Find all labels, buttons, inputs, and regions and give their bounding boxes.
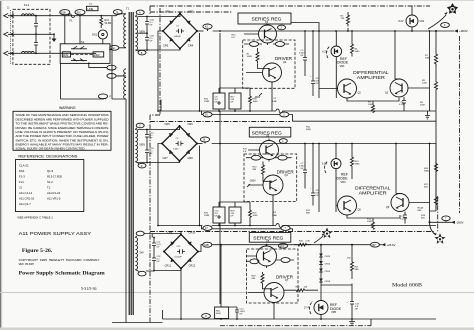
wire long vertical x220 (219, 33, 221, 304)
wire bridge minus down (158, 31, 163, 111)
wire tap y114.5 ch1 (202, 111, 437, 121)
wire CR16 to R21 join (321, 284, 352, 286)
main bus3 y319 (112, 310, 436, 323)
boxed R20b 5600 (215, 307, 229, 319)
svg-text:R13-17,R20: R13-17,R20 (47, 175, 63, 179)
switch dashed link (71, 53, 93, 55)
diode CR15 (319, 269, 331, 274)
fuse F2 (272, 98, 282, 113)
svg-text:CR10: CR10 (189, 231, 196, 235)
svg-text:VR2: VR2 (420, 20, 425, 23)
transistor Q2 (263, 63, 282, 82)
oval F out (441, 23, 450, 28)
T1 primary feed wires (112, 14, 126, 99)
oval S0T3 (276, 258, 294, 263)
svg-text:150K: 150K (420, 105, 426, 107)
svg-text:54.6M: 54.6M (105, 22, 112, 25)
wire channel1 plus bus (213, 30, 436, 32)
svg-text:Figure 5-26.: Figure 5-26. (22, 249, 53, 254)
wire sec1 to bridge top (138, 14, 181, 18)
svg-text:CR8: CR8 (188, 156, 194, 160)
diode CR13 (319, 254, 331, 259)
AC input arrow line 2 (4, 32, 54, 36)
transistor Q6 diff (386, 194, 409, 212)
svg-text:CR15: CR15 (325, 271, 331, 273)
diode CR14 (319, 261, 331, 266)
zener VR1 (331, 31, 342, 98)
oval E (to T1 primary top) (113, 10, 122, 16)
oval S0T (275, 155, 292, 160)
oval node 2 (278, 25, 286, 30)
svg-text:0.15UF: 0.15UF (400, 218, 408, 220)
115V rect (62, 52, 70, 57)
svg-text:C: C (139, 125, 141, 128)
dashed box driver stage 3 (247, 249, 299, 303)
svg-text:S1B: S1B (280, 246, 285, 248)
zener VR3 (331, 144, 341, 213)
T1 primary winding upper (124, 14, 126, 48)
line filter FL1 dashed box (11, 9, 50, 64)
svg-text:DS1: DS1 (19, 169, 25, 173)
resistor R22 100 (284, 287, 318, 292)
label R10 6800 (306, 127, 312, 132)
svg-text:-200V: -200V (456, 221, 464, 225)
lamp DS1 (92, 30, 107, 44)
junction dots bus1 (219, 30, 430, 32)
fuse F3 (272, 212, 282, 227)
svg-text:+300V: +300V (459, 29, 468, 33)
svg-text:24V: 24V (140, 252, 145, 255)
A11 boundary inner dash-dot top (150, 11, 232, 13)
T1 core (126, 7, 133, 316)
wire diff emitters (319, 88, 430, 105)
oval S1B (60, 10, 70, 15)
series reg box (238, 13, 291, 24)
capacitor C4 (399, 97, 406, 111)
capacitor C1 bridge center (174, 26, 185, 39)
capacitor C1B (145, 27, 154, 51)
svg-text:CR12: CR12 (189, 264, 196, 268)
wire S1B down to box (64, 15, 66, 44)
svg-text:8.2V: 8.2V (399, 20, 404, 23)
oval O bus3 (202, 314, 211, 319)
adjust arrow VR5 (309, 301, 313, 314)
wire dropper2 x319 (318, 144, 320, 213)
svg-text:AMPLIFIER: AMPLIFIER (357, 75, 385, 80)
capacitor C1A (145, 17, 154, 27)
transistor Q5 diff (338, 196, 362, 215)
svg-text:CR2: CR2 (188, 10, 194, 14)
svg-text:CR7: CR7 (163, 156, 169, 160)
svg-text:VR1: VR1 (340, 64, 346, 68)
oval 16a (203, 112, 212, 117)
wire bridge plus to oval (197, 30, 204, 32)
svg-text:0.1UF: 0.1UF (399, 104, 406, 106)
dashed box driver stage (243, 40, 295, 88)
svg-text:5-31/5-36: 5-31/5-36 (81, 286, 97, 291)
A11 boundary left dash-dot (149, 6, 151, 14)
svg-text:68K: 68K (306, 213, 310, 215)
svg-text:CR6: CR6 (188, 122, 194, 126)
oval node 7 out (429, 216, 451, 223)
svg-text:68K: 68K (418, 210, 422, 212)
svg-text:A11 C1-12: A11 C1-12 (19, 191, 33, 195)
inductor L2 bottom (21, 51, 34, 53)
svg-text:9320 PR-3087: 9320 PR-3087 (19, 264, 35, 266)
svg-text:.045UF: .045UF (174, 36, 182, 38)
svg-text:DS1: DS1 (92, 33, 98, 37)
capacitor C1D (145, 140, 154, 163)
diff amp box ch2 (355, 186, 391, 196)
wire Q5 emitter to Q7 (246, 245, 274, 319)
oval S1F3 (246, 259, 259, 264)
capacitor C6b bridge3 center (175, 246, 186, 259)
wire Q3 emitter to Q4 (248, 139, 273, 226)
wire left leg of S1 down (61, 63, 104, 99)
capacitor C1C (145, 130, 154, 140)
resistor R2 12K vertical (347, 12, 350, 31)
T1 sec2 terminal C (135, 123, 144, 129)
boxed R19 (229, 207, 241, 223)
wire bridge3 minus down (180, 232, 182, 320)
page bottom edge (0, 328, 474, 330)
A11 boundary mid dash-dot (150, 8, 160, 322)
ground at filter (52, 33, 57, 42)
svg-text:A11 CR1-16: A11 CR1-16 (19, 197, 35, 201)
label REF DIODE VR1 (337, 57, 349, 68)
series reg box 3 (249, 233, 290, 243)
svg-text:C1A-22: C1A-22 (19, 164, 29, 168)
svg-text:A11 POWER SUPPLY ASSY: A11 POWER SUPPLY ASSY (19, 231, 92, 237)
svg-text:REFERENCE DESIGNATIONS: REFERENCE DESIGNATIONS (18, 155, 78, 159)
main bus y111 (157, 100, 436, 112)
oval 17 bus2 (203, 226, 212, 231)
fuse F1 (69, 14, 75, 23)
svg-text:6800: 6800 (306, 129, 312, 131)
diode CR16 (319, 279, 331, 284)
wire box bottom to E2 (88, 63, 107, 68)
wire bridge3 plus up to bus (198, 245, 203, 252)
wire bridge2 plus to oval (197, 143, 203, 145)
resistor R15 vertical (249, 207, 259, 223)
svg-text:1000: 1000 (422, 83, 428, 85)
wire sec1 center tap (138, 32, 148, 34)
A11 boundary top dash-dot (150, 5, 430, 7)
svg-text:A11 VR1-5: A11 VR1-5 (47, 197, 61, 201)
svg-text:-200V: -200V (249, 179, 256, 182)
svg-text:Model 606B: Model 606B (392, 283, 423, 289)
ground at C13 (349, 319, 355, 325)
wire Q3 collector up (395, 31, 399, 79)
reference designations box (16, 160, 84, 212)
adjust arrow VR3 (325, 161, 328, 173)
AC input arrow line 1 (4, 14, 33, 18)
wire sec2 to bridge top (138, 126, 180, 130)
boxed C10 (213, 207, 225, 223)
resistor R13 54.6M (100, 15, 111, 28)
svg-text:CR9: CR9 (167, 231, 173, 235)
svg-text:FL1: FL1 (19, 180, 24, 184)
transistor Q3 diff (385, 79, 408, 97)
oval S1E (244, 42, 262, 47)
wire Q1 emitter to Q2 (244, 24, 272, 111)
label REF DIODE VR5 (330, 303, 342, 314)
oval node 43 (203, 24, 212, 31)
resistor R14 100K (367, 219, 375, 230)
svg-text:200R: 200R (204, 101, 210, 103)
svg-text:1/4A: 1/4A (272, 100, 277, 103)
capacitor C8 (310, 184, 319, 206)
oval node R16 (200, 137, 209, 144)
svg-text:LINE: LINE (88, 7, 94, 11)
svg-text:A11 R1-22: A11 R1-22 (47, 191, 61, 195)
T1 sec1 terminal B (135, 50, 146, 55)
A11 boundary dash-dot y121.5 (150, 121, 290, 123)
wire sec3 to bridge bottom (146, 268, 181, 271)
bridge rectifier CR5-CR8 (161, 122, 198, 162)
A11 boundary bottom dash-dot (220, 325, 371, 327)
label -200V (247, 179, 256, 187)
resistor R16b on right bus (424, 144, 438, 175)
oval 2a (280, 112, 289, 117)
junction dots bus3 (220, 244, 353, 246)
wire cluster2 tops (219, 202, 250, 226)
svg-text:F1-3: F1-3 (19, 175, 25, 179)
resistor R1 100 (247, 48, 260, 63)
wire dropper x305 (304, 31, 306, 48)
svg-text:100R: 100R (247, 56, 253, 58)
wire dropper2 x313 (312, 144, 314, 185)
resistor R20 0.96 horizontal (294, 241, 311, 247)
svg-text:Q1-5: Q1-5 (47, 169, 54, 173)
svg-text:S1B: S1B (61, 11, 66, 14)
right bus ch3 x321 (320, 244, 322, 301)
oval node L (279, 139, 287, 144)
230V rect (93, 52, 104, 57)
svg-text:CR16: CR16 (325, 281, 331, 283)
T1 secondary 3 (135, 238, 144, 270)
label R9 (420, 102, 426, 107)
svg-text:O: O (205, 315, 207, 318)
svg-text:D: D (141, 165, 143, 168)
capacitor C-line1 (34, 15, 38, 35)
svg-text:FL1: FL1 (24, 3, 30, 7)
resistor R17b on right bus (424, 175, 438, 212)
label DRIVER Q4 (277, 170, 295, 178)
wire dropper2 x305 (304, 144, 306, 162)
resistor R18 vertical (249, 93, 259, 109)
transistor Q7 (264, 283, 284, 303)
svg-text:200R: 200R (204, 215, 210, 217)
-200V output (430, 221, 464, 235)
inductor L1 top (21, 14, 34, 16)
resistor R13 3480 (351, 144, 361, 179)
oval node 16B (203, 242, 212, 247)
transistor Q2a diff (338, 79, 362, 98)
diff amp box ch1 (353, 70, 389, 80)
capacitor C6 (400, 212, 408, 224)
svg-text:WARNING: WARNING (59, 106, 76, 110)
capacitor C5 bridge2 center (173, 138, 184, 151)
svg-text:100K: 100K (253, 101, 259, 103)
label R14 68K (418, 207, 426, 220)
oval F3 on primary bottom (98, 94, 111, 99)
capacitor C11 (152, 238, 162, 249)
zener VR2 (406, 6, 418, 32)
wire dropper2 x199 (199, 146, 201, 226)
transistor Q3 reg (260, 141, 279, 160)
wire top line to fuse (33, 15, 113, 17)
svg-text:5600: 5600 (216, 313, 222, 315)
oval S1D (109, 45, 119, 50)
resistor R18c (252, 272, 265, 285)
svg-text:16B: 16B (204, 244, 209, 247)
oval 7b bus2 (281, 226, 290, 231)
wire bottom horizontal join (112, 319, 371, 326)
svg-text:+25.6V: +25.6V (387, 243, 396, 247)
svg-text:100K: 100K (368, 104, 374, 106)
wire S1C down to box (79, 15, 81, 44)
label R2 12K (341, 16, 345, 21)
svg-text:230V: 230V (94, 54, 100, 57)
series reg box 2 (249, 127, 290, 137)
label -280V (254, 93, 262, 99)
switch wafer contacts bottom (71, 59, 87, 62)
wire dropper x313 (312, 31, 314, 72)
arrow to star ch3 (314, 236, 323, 243)
switch S1 box (60, 40, 110, 63)
svg-text:12K: 12K (341, 18, 345, 20)
svg-text:CR13: CR13 (325, 256, 331, 258)
ground C4 return (425, 111, 430, 119)
svg-text:J1: J1 (19, 186, 22, 190)
svg-text:VR5: VR5 (331, 310, 337, 314)
svg-text:CR4: CR4 (188, 44, 194, 48)
page top edge (0, 0, 474, 1)
svg-text:0.01UF: 0.01UF (175, 257, 183, 259)
wire sec2 to bridge bottom (138, 161, 180, 163)
svg-text:565V: 565V (140, 144, 146, 147)
capacitor C3 (310, 72, 319, 96)
oval S1B3 (278, 243, 287, 248)
svg-text:0.047: 0.047 (173, 149, 179, 151)
svg-text:CR1: CR1 (165, 10, 171, 14)
T1 secondary 2 (135, 130, 145, 162)
svg-text:115V: 115V (63, 54, 69, 57)
transistor Q5 reg (257, 246, 277, 266)
svg-text:3480: 3480 (424, 171, 430, 173)
fuseholder rect LINE (86, 4, 98, 11)
svg-text:100K: 100K (367, 221, 373, 223)
arrow to star (428, 15, 446, 29)
main bus2 y225.5 (157, 225, 436, 227)
capacitor C12a (152, 248, 161, 271)
star ch3 left (322, 228, 333, 239)
svg-text:S1: S1 (81, 40, 85, 44)
wire sec1 to bridge bottom (138, 49, 181, 51)
svg-text:S1,2: S1,2 (47, 180, 53, 184)
wire channel2 plus bus (212, 143, 436, 145)
label DRIVER Q7 (276, 274, 294, 282)
AC input arrow line 3 (4, 51, 96, 55)
page fold line (0, 292, 474, 293)
resistor R10 (253, 162, 265, 177)
wire cluster3 (221, 307, 237, 319)
label R12 (306, 210, 311, 215)
T1 primary winding lower (124, 69, 126, 323)
dashed box driver stage 2 (244, 154, 297, 202)
bridge rectifier CR9-CR12 (163, 231, 199, 270)
copyright lines (19, 259, 100, 266)
svg-text:CR5: CR5 (165, 122, 171, 126)
resistor R8 on right bus (422, 65, 438, 111)
svg-text:T1: T1 (47, 186, 51, 190)
wire Q6 collector up (396, 144, 400, 194)
oval mid primary (107, 74, 122, 79)
svg-text:100K: 100K (253, 215, 259, 217)
star mid right (434, 233, 446, 244)
label R11 (243, 149, 248, 154)
resistor R21 (351, 244, 360, 279)
junction dots bus2 (219, 143, 430, 145)
label R20a (204, 213, 210, 218)
svg-text:¹SEE APPENDIX C TABLE 1: ¹SEE APPENDIX C TABLE 1 (17, 216, 53, 220)
T1 sec3 terminal H (135, 270, 146, 276)
bridge rectifier CR1-CR4 (162, 10, 198, 50)
wire dropper3 x221 (220, 245, 222, 307)
A11 boundary right dash-dot (438, 36, 460, 232)
star top right (447, 3, 458, 14)
capacitor C7 (299, 161, 307, 189)
capacitor C-line2 (34, 34, 38, 54)
svg-text:AMPLIFIER: AMPLIFIER (359, 191, 387, 196)
wire parallel right vertical ch1 (429, 31, 431, 111)
wire tap y228.8 ch2 (202, 226, 293, 232)
svg-text:CR3: CR3 (163, 44, 169, 48)
boxed C9 (213, 93, 225, 109)
svg-text:A11 Q1-7: A11 Q1-7 (19, 202, 31, 206)
capacitor C2 (299, 48, 307, 76)
oval S0S (273, 42, 289, 47)
svg-text:3480: 3480 (355, 51, 361, 53)
resistor R7 on right bus (425, 31, 438, 66)
resistor R6 3480 (351, 31, 361, 57)
wire right bus lower (435, 111, 437, 211)
boxed R17 (229, 93, 241, 109)
T1 secondary 1 (135, 17, 145, 51)
label 8.2V VR2 (399, 20, 425, 23)
wire channel3 plus bus (212, 244, 321, 246)
wire dropper x199 (199, 33, 201, 111)
resistor R5 100K (368, 102, 375, 114)
svg-text:CR14: CR14 (325, 264, 331, 266)
wire parallel right vertical ch2 (429, 144, 431, 223)
label REF DIODE VR3 (337, 173, 349, 184)
transistor Q1 (259, 25, 277, 43)
T1 sec2 terminal D (135, 162, 146, 168)
warning text box (13, 111, 111, 150)
+300V output (435, 29, 468, 33)
svg-text:1/8A: 1/8A (272, 214, 277, 217)
wire diff2 emitters (336, 203, 430, 223)
wire bridge2 minus down (158, 144, 162, 226)
svg-text:Power Supply Schematic Diagram: Power Supply Schematic Diagram (19, 271, 106, 277)
wire sec3 to bridge top (144, 234, 181, 239)
svg-text:COPYRIGHT 1965 HEWLETT PACK: COPYRIGHT 1965 HEWLETT PACKARD COMPANY (19, 259, 100, 262)
adjust arrow VR1 (327, 46, 330, 58)
svg-text:SONAL INJURY OR DEATH WHEN CON: SONAL INJURY OR DEATH WHEN CONTACTED. (16, 146, 86, 150)
svg-text:3480: 3480 (355, 164, 361, 166)
